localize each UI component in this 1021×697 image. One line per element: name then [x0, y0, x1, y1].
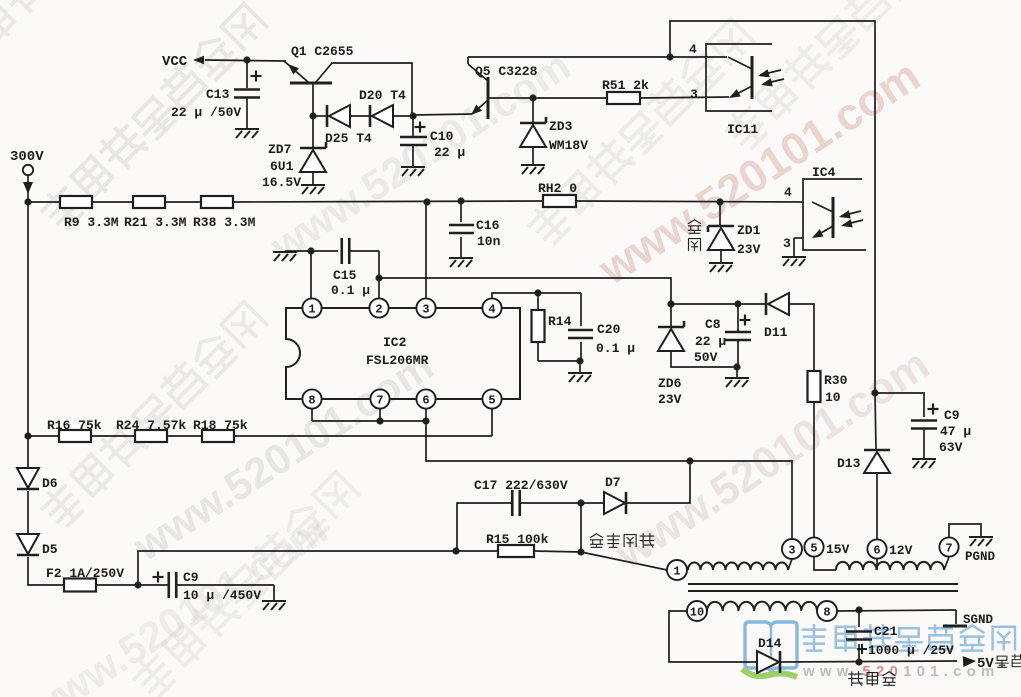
- svg-text:D14: D14: [758, 636, 782, 651]
- svg-text:C15: C15: [333, 268, 357, 283]
- svg-text:10n: 10n: [477, 234, 501, 249]
- svg-text:5V: 5V: [977, 656, 994, 672]
- wire RH2 to IC4: [576, 201, 803, 202]
- svg-text:Q5 C3228: Q5 C3228: [475, 64, 538, 79]
- svg-text:WM18V: WM18V: [549, 138, 588, 153]
- watermark text blue 家电维修资料网: [803, 625, 1015, 652]
- svg-text:R16 75k: R16 75k: [47, 418, 102, 433]
- node pin5 15V: [804, 537, 823, 556]
- node pin8: [817, 601, 837, 621]
- svg-text:22 μ /50V: 22 μ /50V: [171, 105, 241, 120]
- svg-text:Q1 C2655: Q1 C2655: [291, 44, 354, 59]
- junction C21 top: [855, 606, 862, 613]
- svg-text:D25 T4: D25 T4: [325, 131, 372, 146]
- svg-text:www.520101.com: www.520101.com: [802, 663, 1000, 680]
- svg-text:23V: 23V: [658, 392, 682, 407]
- node pin3: [416, 298, 435, 317]
- wire 5V return loop: [669, 611, 757, 662]
- svg-text:6: 6: [422, 393, 429, 407]
- wire pin2 riser / Vcc node: [378, 251, 380, 298]
- diode D11: [765, 293, 768, 315]
- wire R15 to transformer pin1: [534, 551, 581, 552]
- ground C16: [449, 258, 473, 267]
- ground C9 47u: [912, 459, 936, 468]
- capacitor C15 0.1u: [285, 250, 338, 252]
- capacitor C9 10u/450V: [153, 576, 164, 578]
- svg-text:15V: 15V: [826, 542, 850, 557]
- svg-text:ZD7: ZD7: [268, 142, 291, 157]
- wire pin1 riser: [310, 251, 312, 298]
- svg-text:1000 μ /25V: 1000 μ /25V: [868, 643, 954, 658]
- wire pin5 riser: [491, 409, 493, 436]
- wire to F2: [28, 557, 64, 585]
- svg-text:R21 3.3M: R21 3.3M: [124, 215, 187, 230]
- svg-text:300V: 300V: [10, 149, 44, 165]
- svg-text:16.5V: 16.5V: [262, 175, 301, 190]
- wire: [92, 201, 133, 203]
- IC U2: IC2 FSL206MR body: [286, 308, 520, 399]
- junction C16: [457, 197, 464, 204]
- svg-text:IC4: IC4: [812, 165, 836, 180]
- svg-text:C13: C13: [206, 87, 230, 102]
- svg-text:C16: C16: [476, 218, 500, 233]
- watermark logo (book): [742, 622, 797, 677]
- junction snubber/drain: [686, 457, 693, 464]
- ground IC4 pin3: [782, 257, 806, 266]
- svg-text:6U1: 6U1: [270, 159, 294, 174]
- svg-text:ZD6: ZD6: [658, 376, 682, 391]
- svg-text:22 μ: 22 μ: [695, 334, 726, 349]
- ground SGND: [955, 610, 957, 624]
- svg-text:C9: C9: [183, 570, 199, 585]
- svg-text:ZD1: ZD1: [737, 223, 761, 238]
- wire D25-D20: [350, 115, 370, 117]
- label snubber 尖峰吸收: [591, 534, 654, 548]
- node pin4: [482, 298, 501, 317]
- resistor R30 10: [808, 371, 821, 402]
- zener ZD1 23V: [719, 202, 721, 226]
- junction F2/C9: [134, 581, 141, 588]
- svg-text:R9 3.3M: R9 3.3M: [64, 215, 119, 230]
- wire pins 8/7/6 bus: [311, 409, 313, 421]
- diode D7: [604, 492, 625, 514]
- wire Q1 collector to C10 node: [331, 63, 412, 115]
- wire R30 to pin5 15V: [813, 402, 815, 538]
- capacitor C9 47u/63V: [875, 393, 924, 417]
- resistor R16 75k: [28, 435, 59, 437]
- wire D13 to pin6: [876, 473, 878, 540]
- svg-text:R14: R14: [548, 314, 572, 329]
- junction C8 bottom: [733, 363, 740, 370]
- node pin6 12V: [867, 539, 886, 558]
- resistor R51 2k: [607, 92, 640, 104]
- transformer core: [688, 583, 958, 585]
- svg-text:D11: D11: [764, 325, 788, 340]
- junction 300V rail: [24, 198, 31, 205]
- svg-text:R18 75k: R18 75k: [193, 418, 248, 433]
- label se: [689, 239, 701, 251]
- node transformer pin3: [782, 539, 802, 559]
- svg-text:D5: D5: [42, 542, 58, 557]
- wire snubber left leg: [457, 503, 511, 551]
- capacitor C17 222/630V: [511, 490, 514, 516]
- svg-text:C20: C20: [597, 322, 621, 337]
- node pin1: [302, 298, 321, 317]
- wire: [167, 435, 202, 437]
- svg-text:ZD3: ZD3: [549, 119, 573, 134]
- svg-text:3: 3: [783, 236, 791, 251]
- wire left rail: [27, 202, 29, 467]
- wire drain line to transformer pin3: [426, 421, 792, 539]
- svg-text:F2 1A/250V: F2 1A/250V: [46, 566, 124, 581]
- wire D11 to R30: [789, 304, 814, 371]
- svg-text:VCC: VCC: [162, 54, 188, 70]
- wire Q5 base: [488, 97, 607, 99]
- wire: [91, 435, 135, 437]
- ground ZD1: [709, 263, 733, 272]
- svg-text:2: 2: [375, 302, 382, 316]
- ground C9: [262, 601, 286, 610]
- wire C10 to Q5 emitter: [413, 114, 472, 115]
- svg-text:R38 3.3M: R38 3.3M: [193, 215, 256, 230]
- svg-text:4: 4: [784, 185, 792, 200]
- resistor RH2 0: [543, 195, 576, 207]
- ground C20: [568, 373, 592, 382]
- junction R14 top: [534, 289, 541, 296]
- junction C21 bottom: [855, 658, 862, 665]
- svg-text:R24 7.57k: R24 7.57k: [116, 418, 186, 433]
- svg-text:D13: D13: [837, 456, 861, 471]
- svg-text:D7: D7: [605, 475, 621, 490]
- wire D14 to 5V output: [781, 661, 957, 662]
- junction R16 row: [24, 432, 31, 439]
- svg-text:1: 1: [308, 302, 315, 316]
- svg-text:63V: 63V: [939, 440, 963, 455]
- junction pin2/Vcc aux: [375, 274, 382, 281]
- fuse F2 1A/250V: [64, 579, 96, 592]
- svg-text:C8: C8: [705, 317, 721, 332]
- svg-text:5: 5: [810, 541, 817, 555]
- svg-text:C17 222/630V: C17 222/630V: [474, 478, 568, 493]
- diode D6: [17, 468, 39, 488]
- node pin7 PGND: [939, 537, 958, 556]
- svg-text:3: 3: [788, 543, 795, 557]
- svg-text:PGND: PGND: [965, 550, 996, 564]
- wire VCC: [205, 60, 286, 61]
- svg-text:R30: R30: [824, 373, 848, 388]
- wire rail to RH2: [233, 201, 543, 202]
- junction VCC/C13: [243, 56, 250, 63]
- wire pin8 to SGND: [837, 610, 956, 611]
- svg-text:C21: C21: [874, 624, 898, 639]
- zener ZD6 23V: [670, 304, 672, 327]
- svg-text:50V: 50V: [694, 350, 718, 365]
- capacitor C8 22u/50V: [725, 331, 751, 334]
- ground ZD3: [521, 165, 545, 174]
- label aux supply 副电源: [849, 672, 895, 686]
- ground C13: [235, 129, 259, 138]
- wire top rail: [670, 21, 875, 393]
- wire Q5 collector to IC11 pin4 node: [468, 56, 727, 58]
- resistor R21 3.3M: [133, 196, 165, 208]
- ground C10: [401, 167, 425, 176]
- resistor R24 7.57k: [135, 430, 167, 442]
- zener ZD7 6U1 16.5V: [312, 116, 314, 148]
- junction aux rail: [667, 300, 674, 307]
- ground ZD7: [301, 185, 325, 194]
- wire pin3 riser: [425, 202, 427, 298]
- capacitor C21 1000u/25V: [858, 610, 860, 627]
- svg-text:6: 6: [873, 543, 880, 557]
- junction C8: [734, 300, 741, 307]
- svg-text:R51 2k: R51 2k: [602, 78, 649, 93]
- svg-text:D6: D6: [42, 476, 58, 491]
- svg-text:0.1 μ: 0.1 μ: [596, 341, 635, 356]
- svg-text:4: 4: [488, 302, 495, 316]
- svg-text:SGND: SGND: [963, 613, 994, 627]
- wire primary coil: [688, 563, 788, 570]
- svg-text:IC2: IC2: [383, 335, 407, 350]
- junction snubber/primary return: [452, 547, 459, 554]
- ground PGND: [949, 524, 981, 537]
- node pin5: [482, 389, 501, 408]
- junction ZD1: [716, 198, 723, 205]
- svg-text:7: 7: [945, 541, 952, 555]
- wire D7 to drain line: [627, 461, 690, 503]
- svg-text:4: 4: [689, 42, 697, 57]
- svg-text:10: 10: [825, 390, 841, 405]
- svg-text:7: 7: [376, 393, 383, 407]
- capacitor C16 10n: [460, 201, 462, 222]
- svg-text:3: 3: [422, 302, 429, 316]
- transformer primary winding pins 1-3: [667, 560, 687, 580]
- svg-text:R15 100k: R15 100k: [486, 532, 549, 547]
- wire F2 node up to primary return line: [138, 551, 456, 585]
- svg-text:12V: 12V: [889, 543, 913, 558]
- svg-text:D20 T4: D20 T4: [359, 88, 406, 103]
- resistor R38 3.3M: [201, 196, 233, 208]
- svg-text:C10: C10: [430, 129, 454, 144]
- resistor R9 3.3M: [28, 201, 60, 203]
- capacitor C13 22u/50V: [246, 60, 248, 88]
- diode D5: [17, 534, 39, 554]
- svg-text:8: 8: [308, 393, 315, 407]
- diode D25 T4: [326, 105, 329, 127]
- svg-text:FSL206MR: FSL206MR: [366, 353, 429, 368]
- transformer secondary 15V/12V winding: [814, 556, 836, 570]
- node pin2: [369, 298, 388, 317]
- optocoupler IC11: [706, 44, 784, 111]
- resistor R18 75k: [202, 430, 234, 442]
- junction C17/D7/R15: [577, 499, 584, 506]
- node pin7: [370, 389, 389, 408]
- wire D20-C10 node: [393, 115, 413, 117]
- svg-text:22 μ: 22 μ: [434, 145, 465, 160]
- capacitor C10 22u: [409, 112, 416, 119]
- svg-text:IC11: IC11: [727, 122, 758, 137]
- wire aux Vcc to ZD6 node: [379, 278, 671, 304]
- node pin6: [416, 389, 435, 408]
- svg-text:5: 5: [488, 393, 495, 407]
- svg-text:C9: C9: [944, 408, 960, 423]
- svg-text:0.1 μ: 0.1 μ: [331, 283, 370, 298]
- wire: [165, 201, 201, 203]
- ground C15: [273, 252, 297, 261]
- transformer 5V winding pins 10-8: [687, 601, 707, 621]
- wire R15 riser: [580, 503, 582, 552]
- svg-text:3: 3: [690, 87, 698, 102]
- diode D20 T4: [369, 105, 372, 127]
- label huang: [689, 220, 701, 234]
- zener ZD3 WM18V: [532, 98, 534, 123]
- optocoupler IC4: [803, 179, 866, 250]
- junction 12V rail: [871, 389, 878, 396]
- diode D14: [757, 651, 779, 673]
- svg-text:10: 10: [690, 605, 704, 619]
- resistor R14: [537, 293, 539, 310]
- wire Q1 base to D25 node: [312, 83, 314, 116]
- diode D13: [875, 393, 876, 450]
- capacitor C20 0.1u: [580, 293, 582, 326]
- wire: [27, 491, 29, 533]
- svg-text:RH2 0: RH2 0: [538, 181, 577, 196]
- wire pin4 to R14 node: [492, 293, 581, 298]
- svg-text:23V: 23V: [737, 242, 761, 257]
- junction pin3 riser: [423, 198, 430, 205]
- junction C20/R14 bottom: [576, 357, 583, 364]
- wire R51 to IC11 pin3: [640, 97, 729, 98]
- node pin8: [302, 389, 321, 408]
- wire: [96, 584, 169, 586]
- wire Q1 collector node: [309, 112, 316, 119]
- svg-text:10 μ /450V: 10 μ /450V: [183, 588, 261, 603]
- wire R18 to IC2 pin5: [234, 435, 492, 437]
- resistor R15 100k: [456, 550, 498, 552]
- svg-text:8: 8: [823, 605, 830, 619]
- svg-text:47 μ: 47 μ: [940, 424, 971, 439]
- svg-text:1: 1: [673, 564, 680, 578]
- ground C8: [725, 378, 749, 387]
